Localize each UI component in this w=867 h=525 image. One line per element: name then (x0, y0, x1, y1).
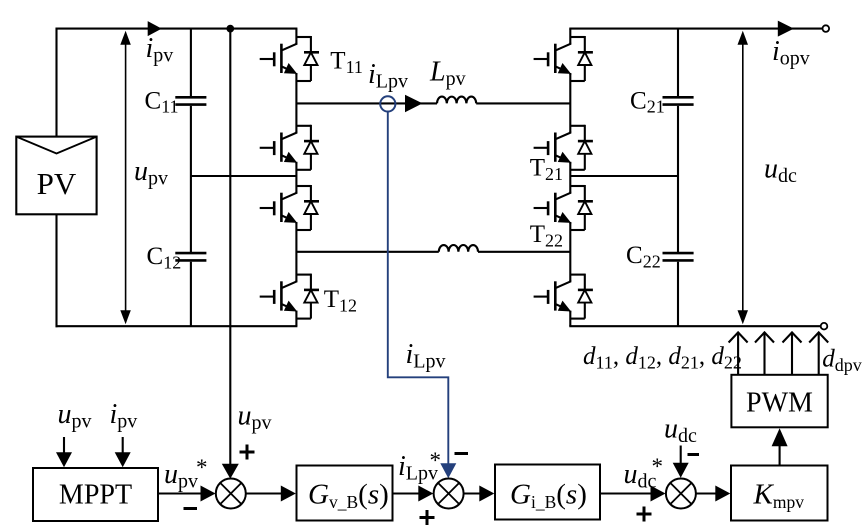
wire left leg segment E (295, 311, 297, 326)
transistor left leg second (260, 125, 319, 170)
voltage dimension arrow u_dc (738, 31, 749, 324)
inductor L_pv (437, 97, 476, 104)
wire bottom rail left segment (56, 325, 298, 327)
wire left leg segment B (295, 74, 297, 133)
arrow i_pv into MPPT (115, 437, 131, 467)
arrow into summer S3 (651, 486, 666, 502)
arrow into Gv_B (281, 486, 296, 502)
current arrow i_opv (778, 21, 794, 37)
wire Gi_B to S3 (600, 492, 653, 494)
wire upper link right part (476, 102, 570, 104)
plus sign at summer S2 (420, 510, 435, 525)
wire left capacitor branch lower (190, 262, 192, 327)
wire right leg segment B (569, 74, 571, 133)
arrow into Gi_B (479, 486, 494, 502)
current arrow i_pv (148, 21, 162, 36)
transistor T22 (534, 185, 593, 230)
wire right capacitor branch middle (677, 106, 679, 252)
wire right leg segment D (569, 223, 571, 282)
wire left leg segment C (295, 163, 297, 193)
current arrow on upper link (405, 95, 423, 113)
block Gv_B(s) (297, 466, 393, 521)
wire K_mpv to PWM (779, 444, 781, 466)
arrow into summer S1 from MPPT (201, 486, 216, 502)
svg-text:MPPT: MPPT (59, 480, 132, 511)
node u_pv tap (junction dot) (226, 25, 234, 33)
wire top rail right segment (569, 28, 822, 30)
wire left leg segment A (295, 29, 297, 44)
transistor right leg fourth (534, 274, 593, 319)
transistor T12 (lower, with antiparallel diode) (260, 274, 319, 319)
svg-text:*: * (430, 448, 442, 473)
block Gi_B(s) (495, 465, 600, 520)
capacitor C11 (175, 97, 206, 104)
transistor right leg first (534, 36, 593, 81)
wire left capacitor branch upper (190, 29, 192, 97)
wire right leg segment C (569, 163, 571, 193)
svg-text:*: * (652, 454, 664, 479)
gate signal arrow 4 (open chevron) (809, 332, 828, 375)
wire right capacitor branch upper (677, 29, 679, 97)
wire MPPT to S1 (158, 492, 203, 494)
arrow i_Lpv into summer S2 (blue) (440, 463, 456, 478)
arrow into K_mpv (715, 486, 730, 502)
wire PV bottom lead (55, 214, 57, 327)
gate signal arrow 2 (open chevron) (755, 332, 774, 375)
wire left midpoint link (191, 175, 297, 177)
minus sign at summer S1 (184, 507, 198, 510)
transistor T11 (upper, with antiparallel diode) (260, 36, 319, 81)
capacitor C21 (663, 97, 694, 104)
svg-text:*: * (196, 455, 208, 480)
summer S3 (666, 479, 696, 509)
arrow u_pv into MPPT (56, 437, 72, 467)
capacitor C22 (663, 253, 694, 260)
wire lower link left part (296, 251, 438, 253)
arrow u_pv into summer S1 (222, 464, 239, 479)
PV module source (16, 137, 96, 215)
wire left capacitor branch middle (190, 106, 192, 252)
wire S2 to Gi_B (464, 492, 482, 494)
wire upper link left part (296, 102, 437, 104)
wire right leg segment E (569, 311, 571, 326)
voltage dimension arrow u_pv (120, 31, 131, 324)
minus sign at summer S2 (455, 452, 469, 455)
block MPPT (33, 468, 158, 521)
transistor T21 (534, 125, 593, 170)
wire right midpoint link (570, 175, 678, 177)
wire u_pv sense line (229, 29, 231, 466)
output terminal bottom (821, 323, 828, 330)
transistor left leg third (260, 185, 319, 230)
arrow into PWM (772, 428, 788, 446)
summer S1 (216, 479, 246, 509)
minus sign at summer S3 (688, 453, 700, 456)
svg-text:PV: PV (37, 166, 77, 201)
svg-text:PWM: PWM (746, 388, 813, 419)
wire right leg segment A (569, 29, 571, 44)
wire right capacitor branch lower (677, 262, 679, 327)
wire S3 to K_mpv (696, 492, 718, 494)
block PWM (731, 375, 827, 428)
arrow into summer S2 (418, 486, 433, 502)
gate signal arrow 3 (open chevron) (783, 332, 802, 375)
wire S1 to Gv_B (246, 492, 283, 494)
gate signal arrow 1 (open chevron) (729, 332, 748, 375)
wire lower link right part (478, 251, 570, 253)
wire Gv_B to S2 (393, 492, 422, 494)
current sensor i_Lpv (blue circle) (380, 96, 395, 111)
summer S2 (434, 479, 464, 509)
plus sign at summer S3 (637, 507, 652, 522)
output terminal top (823, 25, 830, 32)
wire PV top lead (55, 28, 57, 137)
wire i_Lpv feedback (blue) (388, 112, 449, 466)
inductor lower (unlabeled) (439, 245, 478, 252)
arrow u_dc into summer S3 (673, 463, 689, 478)
wire u_dc drop into S3 (680, 446, 682, 466)
block K_mpv (731, 466, 828, 521)
wire bottom rail right segment (569, 325, 821, 327)
capacitor C12 (175, 253, 206, 260)
wire left leg segment D (295, 223, 297, 282)
wire top rail left segment (56, 28, 298, 30)
plus sign at summer S1 (240, 445, 255, 460)
